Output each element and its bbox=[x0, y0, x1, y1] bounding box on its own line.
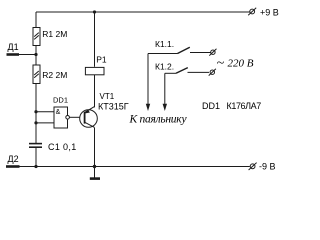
svg-text:К1.1.: К1.1. bbox=[155, 39, 174, 49]
svg-text:Д2: Д2 bbox=[8, 154, 19, 164]
terminal +9V bbox=[248, 8, 256, 15]
wire K1.1 down bbox=[147, 54, 149, 105]
svg-text:&: & bbox=[56, 109, 61, 116]
junction dot relay-top rail bbox=[93, 10, 96, 13]
junction dot gate input 2 bbox=[34, 121, 37, 124]
label ~220 V bbox=[217, 56, 254, 71]
svg-text:DD1: DD1 bbox=[53, 96, 68, 105]
svg-text:VT1: VT1 bbox=[100, 92, 115, 101]
node D2 input stub bbox=[6, 165, 20, 168]
svg-text:+9 В: +9 В bbox=[260, 8, 279, 18]
transistor VT1 bbox=[80, 107, 98, 128]
junction dot D1-rail bbox=[34, 53, 37, 56]
terminal -9V bbox=[249, 163, 257, 170]
svg-text:P1: P1 bbox=[96, 55, 107, 65]
resistor R2 bbox=[33, 65, 40, 84]
wire relay to top rail bbox=[94, 12, 96, 67]
svg-text:К176ЛА7: К176ЛА7 bbox=[227, 101, 262, 111]
wire left rail top segment bbox=[35, 12, 37, 28]
wire emitter down to ground bbox=[94, 128, 96, 178]
wire gate output to base bbox=[69, 116, 84, 118]
junction dot C1-bottom rail bbox=[34, 165, 37, 168]
svg-text:-9 В: -9 В bbox=[259, 162, 276, 172]
wire gate input 1 bbox=[36, 111, 54, 113]
wire bottom -9V rail bbox=[20, 166, 250, 168]
svg-text:Д1: Д1 bbox=[8, 42, 19, 52]
svg-text:C1 0,1: C1 0,1 bbox=[48, 142, 77, 152]
svg-text:К паяльнику: К паяльнику bbox=[129, 113, 188, 125]
terminal K1.1 bbox=[209, 49, 216, 56]
resistor R1 bbox=[33, 28, 40, 46]
label DD1 K176LA7 bbox=[202, 101, 261, 111]
node D1 input stub bbox=[7, 53, 37, 56]
svg-text:К1.2.: К1.2. bbox=[155, 62, 174, 72]
wire K1.2 down bbox=[164, 73, 166, 104]
capacitor C1 bbox=[29, 144, 42, 148]
svg-text:R1 2M: R1 2M bbox=[42, 29, 67, 39]
wire collector to relay bbox=[94, 74, 96, 107]
wire left rail between R1 and R2 bbox=[35, 46, 37, 66]
svg-text:DD1: DD1 bbox=[202, 101, 220, 111]
wire top +9V rail bbox=[36, 11, 250, 13]
ground bbox=[90, 177, 100, 180]
junction dot emitter-bottom rail bbox=[93, 165, 96, 168]
svg-text:220 В: 220 В bbox=[228, 58, 254, 70]
arrow K1.2 to load bbox=[163, 104, 167, 111]
wire left rail between R2 and C1 bbox=[35, 84, 37, 144]
arrow K1.1 to load bbox=[146, 104, 150, 111]
gate output inversion bubble bbox=[66, 116, 70, 120]
relay coil P1 bbox=[85, 67, 104, 74]
junction dot gate input 1 bbox=[34, 110, 37, 113]
contact K1.1 bbox=[148, 47, 211, 53]
terminal K1.2 bbox=[209, 69, 216, 76]
svg-text:~: ~ bbox=[217, 56, 225, 71]
wire gate input 2 bbox=[36, 122, 54, 124]
contact K1.2 bbox=[165, 68, 209, 74]
op-amp gate DD1.1 NAND body bbox=[54, 107, 68, 128]
wire C1 bottom to bottom rail bbox=[35, 147, 37, 166]
svg-text:R2 2M: R2 2M bbox=[42, 70, 67, 80]
svg-text:КТ315Г: КТ315Г bbox=[98, 101, 129, 111]
